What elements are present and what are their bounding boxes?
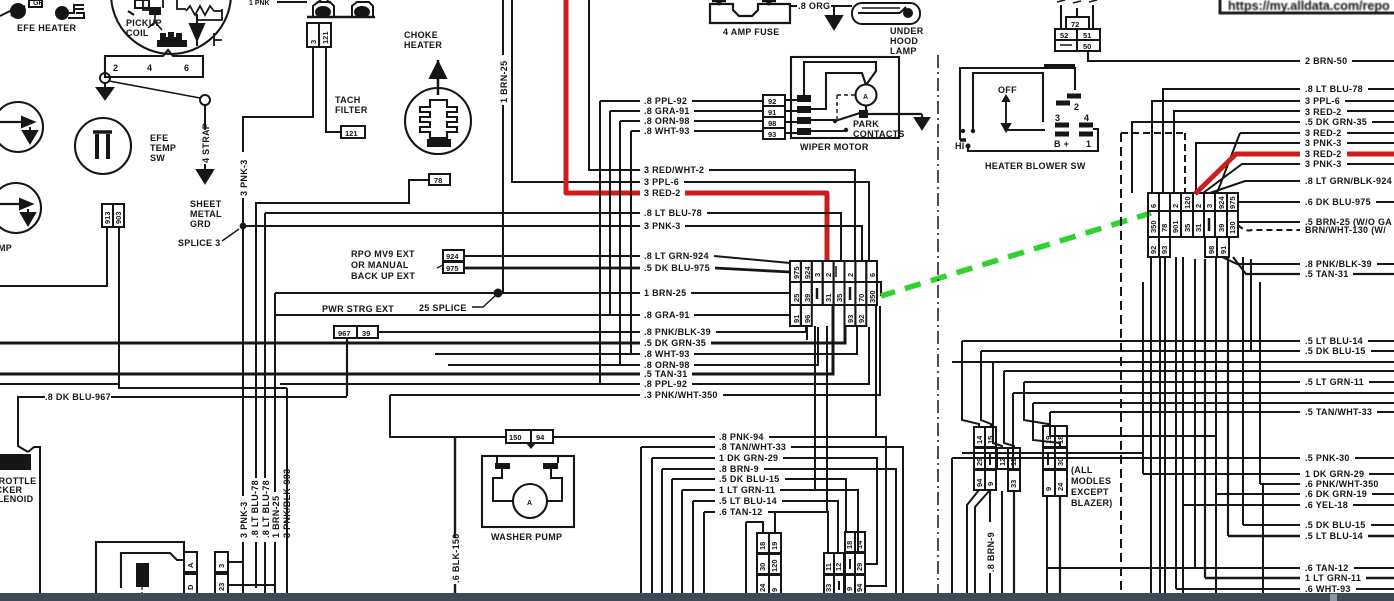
wire row 3 PPL-6 — [684, 182, 869, 262]
svg-text:.8 LT BLU-78: .8 LT BLU-78 — [250, 480, 260, 538]
svg-text:.5 LT BLU-14: .5 LT BLU-14 — [719, 496, 777, 506]
page divider dash-dot — [937, 55, 939, 601]
svg-text:11: 11 — [1009, 458, 1018, 466]
EFE TEMP SW circle — [75, 118, 131, 174]
svg-text:MODLES: MODLES — [1071, 476, 1111, 486]
wire PPL-92 row — [600, 101, 763, 384]
svg-text:975: 975 — [792, 266, 801, 279]
label RPO MV9 EXT OR MANUAL BACK UP EXT — [351, 249, 443, 281]
wire vert LT BLU-78 — [264, 213, 266, 594]
wires below center connector — [807, 305, 876, 512]
nested corner LT GRN-11 — [682, 490, 858, 594]
svg-text:9: 9 — [1044, 487, 1053, 491]
svg-text:4: 4 — [147, 63, 152, 73]
label 25 SPLICE — [419, 295, 496, 313]
wiper internal wire 2 — [811, 73, 866, 109]
wire row PNK-BLK-39 — [378, 327, 806, 332]
svg-text:OR MANUAL: OR MANUAL — [351, 260, 409, 270]
svg-text:975: 975 — [1228, 196, 1237, 209]
fan wire 3 RED-2 black — [1174, 111, 1394, 193]
fan wire 3 PNK-3 lower — [1203, 164, 1394, 193]
svg-text:91: 91 — [1219, 246, 1228, 254]
wire row TAN-31 — [0, 306, 833, 374]
central connector row3 right — [845, 305, 867, 326]
box 975 — [443, 262, 464, 273]
svg-text:29: 29 — [855, 563, 864, 571]
svg-text:PWR STRG EXT: PWR STRG EXT — [322, 304, 394, 314]
washer terminals — [493, 456, 562, 501]
wire 913 to left edge — [0, 227, 107, 286]
svg-text:D: D — [186, 584, 195, 590]
svg-text:924: 924 — [446, 252, 459, 261]
box 924 — [443, 250, 464, 261]
svg-text:.8 PNK-94: .8 PNK-94 — [719, 432, 764, 442]
svg-text:1 DK GRN-29: 1 DK GRN-29 — [1305, 469, 1364, 479]
svg-text:.8 BRN-9: .8 BRN-9 — [986, 532, 996, 572]
wire LT GRN-11 row — [1024, 381, 1394, 383]
svg-text:(ALL: (ALL — [1071, 465, 1093, 475]
verticals labels bottom left — [238, 462, 292, 542]
EFE heater terminal 2 — [56, 5, 84, 19]
bundle verticals below right connector — [1150, 257, 1152, 601]
contact 4 — [1078, 103, 1092, 123]
svg-text:.8 BRN-9: .8 BRN-9 — [719, 464, 759, 474]
svg-text:23: 23 — [217, 583, 226, 591]
wire 3 to splice — [243, 47, 313, 226]
connector 3 23 — [215, 552, 228, 594]
wire 23 cell to brn25 — [228, 584, 275, 586]
svg-text:2 BRN-50: 2 BRN-50 — [1305, 56, 1347, 66]
wire vert 3 PNK-3 — [242, 226, 244, 594]
svg-text:.8 ORN-98: .8 ORN-98 — [644, 116, 690, 126]
svg-text:33: 33 — [824, 584, 833, 592]
wiper motor circle A — [856, 85, 877, 106]
svg-text:120: 120 — [770, 559, 779, 572]
svg-text:3: 3 — [1055, 113, 1060, 123]
svg-text:913: 913 — [103, 211, 112, 224]
svg-text:4 AMP FUSE: 4 AMP FUSE — [723, 27, 780, 37]
connector group C 19 18 30 9 24 — [1043, 426, 1067, 496]
svg-text:A: A — [863, 94, 868, 101]
svg-text:35: 35 — [835, 294, 844, 302]
wire pin3 to arm — [811, 119, 835, 121]
svg-text:PARK: PARK — [853, 119, 879, 129]
wire DK GRN-19 row — [1216, 493, 1394, 495]
wire row PNK-WHT-350 — [390, 306, 880, 395]
central bulkhead connector grid row1 — [790, 261, 877, 282]
center labels column — [644, 165, 718, 400]
svg-text:92: 92 — [857, 315, 866, 323]
svg-text:3 RED/WHT-2: 3 RED/WHT-2 — [644, 165, 704, 175]
green highlight dashed wire — [881, 213, 1151, 296]
svg-text:350: 350 — [1149, 220, 1158, 233]
wire TAN-12 row — [1047, 567, 1394, 569]
central connector row3 left — [790, 305, 812, 326]
wiper park dashed — [837, 95, 856, 119]
under hood lamp — [852, 3, 920, 24]
pins above connector — [1061, 5, 1093, 29]
svg-text:3 PNK-3: 3 PNK-3 — [239, 159, 249, 196]
svg-text:.5 DK BLU-15: .5 DK BLU-15 — [1305, 520, 1366, 530]
ground under hood — [826, 6, 842, 29]
svg-text:1 BRN-25: 1 BRN-25 — [271, 496, 281, 538]
svg-text:92: 92 — [768, 97, 776, 106]
svg-text:3: 3 — [1205, 204, 1214, 208]
right connector row3 right — [1205, 237, 1229, 257]
svg-text:11: 11 — [824, 563, 833, 571]
wire PNK BLK-903 vertical — [286, 388, 288, 594]
park contact arm — [833, 113, 860, 123]
svg-text:.8 PNK/BLK-39: .8 PNK/BLK-39 — [644, 327, 711, 337]
wires boxes to wiper pins — [785, 100, 799, 133]
washer pump box — [482, 456, 574, 527]
svg-text:SPLICE 3: SPLICE 3 — [178, 238, 220, 248]
svg-text:924: 924 — [1217, 196, 1226, 209]
svg-text:72: 72 — [1071, 20, 1079, 29]
label ALL MODELS EXCEPT BLAZER — [1071, 465, 1113, 508]
wire row .8 LT BLU-78 — [265, 213, 841, 262]
wire row y362 — [952, 361, 1394, 363]
node splice 25 — [494, 289, 503, 298]
label TACH FILTER — [335, 95, 368, 115]
svg-text:.5 LT BLU-14: .5 LT BLU-14 — [1305, 336, 1363, 346]
wire washer line left — [455, 436, 506, 438]
wire 1 pnk — [277, 1, 307, 3]
svg-text:2: 2 — [846, 273, 855, 277]
svg-text:.6 TAN-12: .6 TAN-12 — [1305, 563, 1349, 573]
wires below groups — [967, 490, 979, 594]
svg-text:2: 2 — [1171, 204, 1180, 208]
svg-text:MP: MP — [0, 243, 12, 253]
svg-text:3: 3 — [217, 564, 226, 568]
OFF arm — [998, 85, 1045, 131]
svg-text:.8 LT GRN-924: .8 LT GRN-924 — [644, 251, 709, 261]
svg-text:2: 2 — [1194, 204, 1203, 208]
svg-text:3 PNK-3: 3 PNK-3 — [1305, 138, 1342, 148]
svg-text:29: 29 — [975, 458, 984, 466]
wire vertical to 3 PPL-6 — [512, 0, 640, 182]
nested corner TAN-12 — [704, 512, 828, 594]
svg-text:3 RED-2: 3 RED-2 — [1305, 107, 1342, 117]
connector A D — [184, 552, 197, 594]
svg-text:3 PPL-6: 3 PPL-6 — [1305, 96, 1340, 106]
svg-text:93: 93 — [1160, 246, 1169, 254]
svg-text:.5 TAN/WHT-33: .5 TAN/WHT-33 — [1305, 407, 1372, 417]
wire DK BLU-15 row — [981, 350, 1394, 352]
svg-text:120: 120 — [1183, 196, 1192, 209]
4 amp fuse — [710, 1, 790, 24]
wire vertical 1 BRN-25 — [502, 0, 504, 293]
svg-text:HEATER BLOWER SW: HEATER BLOWER SW — [985, 161, 1086, 171]
svg-text:.6 PNK/WHT-350: .6 PNK/WHT-350 — [1305, 479, 1379, 489]
svg-text:2: 2 — [824, 273, 833, 277]
nested corner TAN WHT-33 — [641, 447, 903, 594]
wire 78 to bottom — [256, 180, 429, 588]
svg-text:2: 2 — [113, 63, 118, 73]
svg-text:24: 24 — [758, 583, 767, 592]
wire row y371 — [1004, 370, 1394, 372]
svg-text:4 STRAP: 4 STRAP — [201, 123, 211, 163]
label THROTTLE KICKER SOLENOID — [0, 476, 36, 504]
box 39 — [357, 326, 378, 338]
svg-text:78: 78 — [434, 176, 442, 185]
wire BRN WHT-130 dashed — [1238, 225, 1300, 230]
wire vertical to 3 RED-WHT-2 — [589, 0, 640, 170]
svg-text:EXCEPT: EXCEPT — [1071, 487, 1109, 497]
bottom left box component — [96, 542, 184, 594]
svg-text:RPO MV9 EXT: RPO MV9 EXT — [351, 249, 415, 259]
wire DK BLU-15 lower row — [1243, 524, 1394, 526]
svg-text:91: 91 — [768, 108, 776, 117]
svg-text:.5 DK BLU-975: .5 DK BLU-975 — [644, 263, 710, 273]
svg-text:LAMP: LAMP — [890, 46, 917, 56]
box 967 — [334, 326, 357, 338]
svg-text:92: 92 — [1149, 246, 1158, 254]
svg-text:BACK UP EXT: BACK UP EXT — [351, 271, 415, 281]
distributor circle — [111, 0, 231, 54]
svg-text:924: 924 — [803, 266, 812, 279]
wire 121 to tach filter — [326, 47, 341, 132]
svg-text:39: 39 — [803, 294, 812, 302]
fan wire LT BLU-78 — [1163, 89, 1394, 193]
central connector row2 — [790, 282, 877, 305]
gauge circle 1 — [0, 102, 43, 152]
red wire 3 RED-2 left — [566, 0, 827, 262]
svg-text:93: 93 — [768, 130, 776, 139]
svg-text:96: 96 — [803, 315, 812, 323]
wire BLK-150 — [451, 437, 461, 594]
svg-text:SW: SW — [150, 153, 165, 163]
svg-text:4: 4 — [1084, 113, 1089, 123]
wire ORN-98 row — [620, 121, 763, 365]
wire row 3 RED-WHT-2 — [632, 170, 855, 262]
svg-text:3 PNK-3: 3 PNK-3 — [1305, 159, 1342, 169]
svg-text:3 RED-2: 3 RED-2 — [1305, 149, 1342, 159]
wire WHT-93 row — [1176, 588, 1394, 590]
svg-text:78: 78 — [1160, 224, 1169, 232]
svg-text:EFE HEATER: EFE HEATER — [17, 23, 77, 33]
wire DK BLU-975 — [1238, 201, 1394, 203]
svg-text:BLAZER): BLAZER) — [1071, 498, 1113, 508]
connector group E — [824, 532, 865, 595]
fan wire 3 RED-2 second — [1240, 132, 1394, 134]
svg-text:18: 18 — [758, 542, 767, 550]
label PARK CONTACTS — [853, 119, 905, 139]
wire 39 box right — [377, 331, 379, 333]
svg-text:.8 WHT-93: .8 WHT-93 — [644, 126, 690, 136]
washer motor circle — [513, 484, 547, 518]
box 150 94 — [506, 430, 553, 449]
connector group B 12 11 33 — [997, 448, 1020, 491]
svg-text:.6 TAN-12: .6 TAN-12 — [719, 507, 763, 517]
wire TAN WHT-33 row — [1050, 411, 1394, 413]
dashed box top edge — [1121, 132, 1185, 134]
svg-text:WASHER PUMP: WASHER PUMP — [491, 532, 562, 542]
svg-text:.5 DK GRN-35: .5 DK GRN-35 — [644, 338, 706, 348]
svg-text:.5 TAN-31: .5 TAN-31 — [644, 369, 688, 379]
HI terminal — [955, 141, 1063, 151]
choke heater label — [404, 30, 442, 50]
svg-text:94: 94 — [855, 583, 864, 592]
connector group D 18 19 — [757, 533, 781, 595]
svg-text:TACH: TACH — [335, 95, 361, 105]
pickup coil core — [150, 8, 186, 46]
svg-text:33: 33 — [1009, 480, 1018, 488]
svg-text:6: 6 — [184, 63, 189, 73]
svg-text:3 PNK-3: 3 PNK-3 — [644, 221, 681, 231]
svg-text:1 LT GRN-11: 1 LT GRN-11 — [1305, 573, 1361, 583]
svg-text:31: 31 — [1194, 224, 1203, 232]
wire row 3 PNK-3 — [243, 226, 862, 262]
svg-text:14: 14 — [975, 435, 984, 444]
svg-text:3: 3 — [309, 40, 318, 44]
label BRN-9 vertical — [986, 490, 996, 594]
svg-text:901: 901 — [1171, 220, 1180, 233]
gauge circle 2 — [0, 183, 41, 233]
connector 52 51 50 — [1055, 29, 1100, 51]
wire PNK BLK-39 — [1222, 257, 1394, 264]
svg-text:15: 15 — [986, 436, 995, 444]
fan wire 3 PPL-6 — [1152, 101, 1394, 193]
nested corner DK BLU-15 — [672, 479, 846, 594]
svg-text:130: 130 — [1228, 221, 1237, 234]
svg-text:6: 6 — [868, 273, 877, 277]
svg-text:A: A — [527, 500, 532, 507]
nest corner drops to group A — [962, 341, 979, 427]
svg-text:.8 WHT-93: .8 WHT-93 — [644, 349, 690, 359]
svg-text:HEATER: HEATER — [404, 40, 442, 50]
svg-text:91: 91 — [792, 315, 801, 323]
svg-text:903: 903 — [114, 211, 123, 224]
svg-text:121: 121 — [321, 31, 330, 44]
distributor cap box 2 4 6 — [105, 50, 203, 77]
wire row y403 — [1033, 402, 1394, 404]
wire row PPL-92 — [280, 327, 869, 384]
svg-text:HI: HI — [955, 141, 965, 151]
node strap — [200, 95, 210, 105]
wire BRN-25 — [1238, 221, 1394, 223]
wire PNK WHT-350 row — [1260, 483, 1300, 485]
right top labels — [1305, 84, 1392, 279]
svg-text:.6 YEL-18: .6 YEL-18 — [1305, 500, 1348, 510]
svg-text:.8 PPL-92: .8 PPL-92 — [644, 379, 687, 389]
wire row GRA-91 — [276, 314, 790, 316]
wiper motor box — [791, 57, 899, 138]
connector 3 121 — [307, 23, 331, 47]
svg-text:3 RED-2: 3 RED-2 — [644, 188, 681, 198]
box 98 — [763, 117, 785, 128]
bottom dark bar — [0, 593, 1394, 601]
svg-text:.5 DK BLU-15: .5 DK BLU-15 — [1305, 346, 1366, 356]
svg-text:.3 PNK/WHT-350: .3 PNK/WHT-350 — [644, 390, 718, 400]
svg-text:19: 19 — [1044, 436, 1053, 444]
svg-text:70: 70 — [857, 294, 866, 302]
svg-text:93: 93 — [846, 315, 855, 323]
wire left edge y384 — [0, 383, 119, 385]
wire 350 corner down to washer line — [390, 395, 506, 437]
svg-text:9: 9 — [986, 482, 995, 486]
svg-text:.5 LT BLU-14: .5 LT BLU-14 — [1305, 531, 1363, 541]
svg-text:BRN/WHT-130 (W/: BRN/WHT-130 (W/ — [1305, 225, 1386, 235]
wire 967 up — [346, 338, 348, 396]
right lower labels — [1305, 336, 1379, 594]
svg-text:.8 TAN/WHT-33: .8 TAN/WHT-33 — [719, 442, 786, 452]
svg-text:.8 LT BLU-78: .8 LT BLU-78 — [1305, 84, 1363, 94]
svg-text:.8 DK BLU-967: .8 DK BLU-967 — [45, 392, 111, 402]
wire LT BLU-14 lower row — [1228, 535, 1394, 538]
svg-text:.8 GRA-91: .8 GRA-91 — [644, 106, 690, 116]
wire 903 down — [119, 227, 287, 388]
box 78 — [429, 174, 450, 185]
wire row DK GRN-35 — [0, 327, 845, 343]
label UNDER HOOD LAMP — [890, 26, 924, 56]
wire pin2 to strap node — [109, 81, 200, 98]
wire YEL-18 row — [1183, 504, 1394, 506]
svg-text:.8 ORG: .8 ORG — [798, 1, 830, 11]
svg-text:1 BRN-25: 1 BRN-25 — [644, 288, 686, 298]
svg-text:.6 DK BLU-975: .6 DK BLU-975 — [1305, 197, 1371, 207]
box 91 — [763, 106, 785, 117]
svg-text:COIL: COIL — [126, 28, 149, 38]
svg-text:.5 DK GRN-35: .5 DK GRN-35 — [1305, 117, 1367, 127]
svg-text:1 LT GRN-11: 1 LT GRN-11 — [719, 485, 775, 495]
arrow in distributor — [190, 14, 204, 46]
choke heater symbol — [405, 60, 471, 154]
ground sheet metal — [197, 170, 213, 183]
right connector row3 left — [1148, 237, 1170, 257]
label PICKUP COIL — [126, 18, 162, 38]
splice 3 node — [240, 223, 247, 230]
svg-text:B +: B + — [1054, 139, 1069, 149]
svg-text:30: 30 — [1056, 458, 1065, 466]
right connector row2 — [1148, 211, 1238, 237]
connector group A 14 15 — [974, 427, 996, 490]
bottom center labels — [719, 432, 786, 517]
svg-text:SOLENOID: SOLENOID — [0, 494, 34, 504]
wire solenoid step — [28, 447, 40, 594]
wire LT BLU-14 row — [962, 340, 1394, 342]
blower switch outer loop — [960, 68, 1075, 140]
svg-text:FILTER: FILTER — [335, 105, 368, 115]
contact 2 — [1067, 96, 1081, 112]
svg-text:.8 LT GRN/BLK-924: .8 LT GRN/BLK-924 — [1305, 176, 1392, 186]
svg-text:SHEET: SHEET — [190, 199, 222, 209]
terminal symbols top — [307, 0, 375, 17]
svg-text:50: 50 — [1083, 42, 1091, 51]
wire TAN-31 — [1233, 257, 1394, 274]
wire WHT-93 row — [631, 131, 763, 354]
svg-text:CHOKE: CHOKE — [404, 30, 438, 40]
wire row y453 — [962, 452, 1143, 454]
svg-text:12: 12 — [998, 458, 1007, 466]
svg-text:98: 98 — [768, 119, 776, 128]
label EFE TEMP SW — [150, 133, 176, 163]
svg-text:.8 PPL-92: .8 PPL-92 — [644, 96, 687, 106]
svg-text:94: 94 — [975, 478, 984, 487]
wiper main wire out — [866, 106, 922, 114]
svg-text:3 RED-2: 3 RED-2 — [1305, 128, 1342, 138]
nested corner LT BLU-14 — [693, 501, 838, 594]
label SPLICE 3 — [178, 229, 239, 248]
wire PNK-30 row — [952, 457, 1394, 459]
svg-text:.6 DK GRN-19: .6 DK GRN-19 — [1305, 489, 1367, 499]
svg-text:12: 12 — [834, 563, 843, 571]
svg-text:3: 3 — [813, 273, 822, 277]
fan wire DK GRN-35 — [1132, 122, 1394, 193]
svg-text:19: 19 — [770, 542, 779, 550]
box 92 — [763, 95, 785, 106]
wire washer to PNK-94 — [553, 437, 886, 586]
